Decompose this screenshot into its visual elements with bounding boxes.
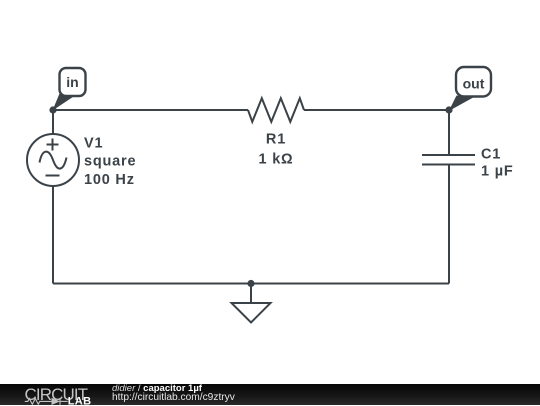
net label in bubble box	[60, 68, 86, 96]
source V1 circle body	[27, 134, 79, 186]
capacitor C1 bottom plate	[422, 164, 475, 166]
CircuitLab logo	[22, 385, 116, 406]
capacitor C1 top plate	[422, 154, 475, 156]
svg-text:100 Hz: 100 Hz	[84, 172, 135, 188]
net label out bubble box	[456, 67, 491, 97]
node in junction dot	[49, 106, 56, 113]
footer bar	[0, 384, 540, 405]
wire: bottom net (ground rail)	[53, 283, 449, 285]
svg-text:LAB: LAB	[68, 396, 92, 406]
ground symbol triangle	[232, 303, 271, 323]
svg-text:square: square	[84, 154, 136, 170]
svg-text:V1: V1	[84, 136, 103, 152]
net label in pointer tail	[53, 94, 75, 111]
wire: source V1 bottom terminal to bottom net	[52, 186, 54, 284]
wire: resistor R1 right lead to node out	[304, 109, 449, 111]
source V1 plus sign	[47, 139, 59, 151]
svg-text:R1: R1	[266, 132, 286, 148]
source V1 minus sign	[46, 175, 60, 177]
wire: capacitor C1 bottom plate to bottom net	[448, 165, 450, 284]
svg-text:1 kΩ: 1 kΩ	[259, 152, 294, 168]
resistor R1 zigzag	[248, 98, 304, 122]
wire: ground stub	[250, 284, 252, 304]
source V1 sine wave	[40, 152, 67, 169]
svg-text:C1: C1	[481, 147, 501, 163]
wire: top net, node in to resistor R1 left lead	[53, 109, 248, 111]
net label out pointer tail	[449, 96, 475, 112]
svg-text:out: out	[463, 76, 485, 92]
ground junction dot	[247, 280, 254, 287]
wire: node in down to source V1 top terminal	[52, 110, 54, 134]
svg-text:in: in	[66, 74, 78, 90]
wire: node out down to capacitor C1 top plate	[448, 110, 450, 155]
svg-text:1 µF: 1 µF	[481, 164, 514, 180]
node out junction dot	[445, 106, 452, 113]
footer credits text	[112, 384, 235, 403]
